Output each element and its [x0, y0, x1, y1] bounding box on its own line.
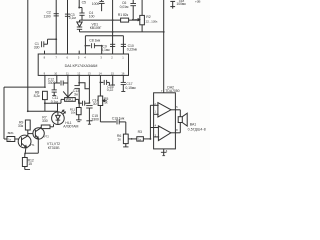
svg-text:15: 15 — [111, 71, 114, 75]
svg-text:VT1: VT1 — [30, 143, 35, 147]
svg-text:8,2к: 8,2к — [34, 94, 41, 98]
svg-text:100: 100 — [89, 14, 95, 18]
svg-text:3300: 3300 — [91, 117, 99, 121]
svg-text:ВМ1: ВМ1 — [8, 131, 14, 135]
svg-text:WA1: WA1 — [66, 98, 73, 102]
svg-text:1к: 1к — [104, 100, 108, 104]
svg-text:+3В: +3В — [195, 0, 200, 3]
svg-text:C19: C19 — [112, 117, 118, 121]
svg-text:C18: C18 — [179, 0, 185, 3]
svg-text:15: 15 — [28, 162, 32, 166]
svg-text:0,1м: 0,1м — [69, 16, 77, 20]
svg-text:R3: R3 — [138, 130, 142, 134]
svg-text:16: 16 — [121, 71, 124, 75]
svg-text:0,1м: 0,1м — [51, 100, 59, 104]
svg-text:0,01м: 0,01м — [120, 5, 129, 9]
svg-text:C5: C5 — [82, 0, 86, 4]
svg-text:1к: 1к — [117, 137, 121, 141]
svg-text:3н: 3н — [74, 92, 78, 96]
svg-text:DA1 КР174ХА34АМ: DA1 КР174ХА34АМ — [65, 64, 98, 68]
svg-text:0,1мк: 0,1мк — [101, 48, 110, 52]
svg-text:КВ109Г: КВ109Г — [90, 26, 102, 30]
svg-text:АЛ307АМ: АЛ307АМ — [63, 125, 78, 129]
svg-text:BA1: BA1 — [190, 122, 196, 126]
svg-text:0,22мк: 0,22мк — [127, 47, 138, 51]
svg-text:10к: 10к — [71, 111, 76, 115]
svg-text:330: 330 — [42, 119, 48, 123]
svg-text:КТ315Б: КТ315Б — [48, 146, 61, 150]
svg-text:1мк: 1мк — [119, 117, 125, 121]
svg-text:0,15мк: 0,15мк — [125, 86, 136, 90]
svg-text:1100: 1100 — [44, 14, 51, 18]
svg-text:C8 1мк: C8 1мк — [89, 38, 100, 42]
svg-text:13: 13 — [88, 71, 91, 75]
svg-text:12: 12 — [77, 71, 80, 75]
svg-text:14: 14 — [99, 71, 102, 75]
svg-text:3300: 3300 — [48, 81, 56, 85]
svg-text:TDA7050: TDA7050 — [165, 89, 179, 93]
svg-text:10: 10 — [54, 71, 57, 75]
svg-text:330: 330 — [34, 45, 40, 49]
svg-text:33к: 33к — [18, 124, 24, 128]
svg-text:VT2: VT2 — [44, 134, 49, 138]
svg-text:0,5ГДШ4-8: 0,5ГДШ4-8 — [188, 127, 206, 131]
svg-text:R1 82к: R1 82к — [118, 13, 129, 17]
svg-text:30: 30 — [93, 102, 97, 106]
svg-text:22...130к: 22...130к — [146, 19, 158, 23]
svg-text:1000: 1000 — [92, 2, 100, 6]
svg-text:0,22: 0,22 — [107, 88, 114, 92]
